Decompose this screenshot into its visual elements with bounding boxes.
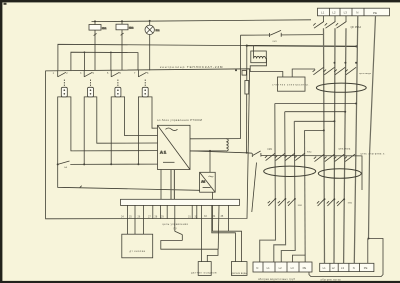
node: return bus ch4 bbox=[137, 163, 139, 165]
node: return bus ch2 bbox=[83, 163, 85, 165]
input contactor pole 4 bbox=[345, 67, 356, 75]
controller terminal strip X5 bbox=[121, 199, 240, 205]
wire: terminal 24 to button unit bbox=[127, 205, 129, 234]
breaker QF pole 1 bbox=[313, 16, 324, 28]
choke L2 bbox=[226, 139, 228, 151]
node: lamp tap bbox=[149, 20, 151, 22]
contactor KM1 linkage ellipse bbox=[264, 166, 316, 176]
relay coil KM1 bbox=[89, 21, 101, 70]
breaker QF pole 2 bbox=[325, 16, 336, 28]
labels: strip terminal numbers bbox=[121, 215, 224, 219]
svg-text:N: N bbox=[256, 266, 258, 270]
wire: KM1 feed N bbox=[275, 103, 356, 105]
wire: control line from A1 to KM coil circuit bbox=[190, 151, 252, 153]
wire: N drop into choke bbox=[253, 46, 255, 58]
svg-text:L1: L1 bbox=[321, 10, 325, 14]
heater channel 1: contact K1 bbox=[58, 70, 66, 87]
svg-text:цепь ввода: цепь ввода bbox=[359, 73, 372, 75]
svg-text:PE: PE bbox=[364, 266, 368, 270]
scan border left bbox=[0, 0, 2, 283]
heater channel 2: contact K2 bbox=[84, 70, 92, 87]
node: N bus at input N line bbox=[355, 45, 357, 47]
wire: PE corner to tray strip bbox=[367, 239, 369, 264]
input contactor pole 3 bbox=[334, 67, 345, 75]
wire: control line continuation bbox=[261, 156, 362, 191]
heater channel 3: plug connector X3 bbox=[115, 87, 121, 97]
wire: long riser to top sub-circuit bbox=[240, 35, 242, 138]
wire: terminal 29 stub bbox=[166, 205, 168, 218]
svg-text:QF 35A4: QF 35A4 bbox=[351, 25, 362, 29]
wire: meter to input contactor bbox=[292, 69, 315, 77]
wire: phase L2 riser bbox=[334, 28, 335, 263]
svg-text:N: N bbox=[353, 266, 355, 270]
svg-text:L3: L3 bbox=[344, 11, 348, 15]
wire: KM1 pole 4 drop bbox=[304, 130, 307, 262]
wire: top control bus L bbox=[92, 20, 312, 22]
node: line2 terminal 3 bbox=[84, 51, 86, 53]
contactor KM2 linkage ellipse bbox=[318, 169, 361, 179]
heater channel 1: plug connector X1 bbox=[61, 87, 67, 97]
water sensor box bbox=[231, 262, 247, 276]
wire: ch1 drop to A2 bbox=[58, 164, 200, 190]
node: heater return bus ch1 bbox=[57, 163, 59, 165]
tray heating terminal strip bbox=[320, 263, 374, 271]
contactor KM1 pole 3 blade bbox=[285, 153, 295, 160]
svg-text:A 1: A 1 bbox=[160, 149, 167, 154]
input terminal strip X0 bbox=[318, 8, 390, 16]
heater channel 2: plug connector X2 bbox=[88, 87, 94, 97]
labels: pipes strip cells bbox=[256, 266, 306, 270]
contactor KM2 pole 4 blade bbox=[345, 154, 355, 161]
contact SF on control line bbox=[252, 151, 261, 157]
wire: terminal 27 stub bbox=[152, 205, 154, 218]
svg-text:A2: A2 bbox=[201, 179, 205, 183]
wire: KM1 coil contact line to L1 bbox=[241, 34, 324, 37]
heater loop E1 bbox=[58, 97, 158, 164]
wire: terminal 30 to PU line bbox=[217, 205, 220, 249]
svg-text:датчик воды: датчик воды bbox=[232, 272, 248, 275]
wire: neutral N riser bbox=[354, 16, 358, 263]
input contactor pole 2 bbox=[324, 67, 335, 75]
wire: terminal 33 to rain sensor bbox=[201, 205, 203, 261]
svg-text:PE: PE bbox=[373, 11, 377, 15]
wire: A2 bottom to water sensor bbox=[213, 192, 242, 261]
node: line2 terminal 5 bbox=[110, 52, 112, 54]
node: KM2 coil tap bbox=[121, 20, 123, 22]
input contactor pole 1 bbox=[313, 67, 324, 75]
wire: phase L3 riser bbox=[344, 28, 346, 263]
wire: terminal 35 to water sensor line bbox=[228, 205, 230, 231]
labels: input strip cells bbox=[321, 10, 377, 14]
svg-text:ПУ: ПУ bbox=[174, 228, 178, 231]
contactor KM1 pole 4 blade bbox=[295, 153, 305, 160]
svg-text:счетчик электроэнер.: счетчик электроэнер. bbox=[272, 83, 310, 86]
wire: terminal 28 stub bbox=[159, 205, 161, 218]
labels: terminal numbers 1-8 bbox=[53, 72, 149, 75]
svg-text:цепь управления: цепь управления bbox=[163, 223, 189, 226]
wire: phase L1 riser bbox=[324, 28, 325, 263]
wire: A1 right to choke top bbox=[190, 138, 241, 140]
wire: bus line2 bbox=[71, 52, 138, 70]
breaker contact KM2 out 2 bbox=[327, 199, 335, 206]
svg-text:L1: L1 bbox=[267, 266, 270, 270]
wire: KM1 feed L1 bbox=[305, 129, 324, 131]
wire: riser into controller terminal N bbox=[246, 46, 248, 81]
heater channel 3: contact K3 bbox=[111, 70, 119, 87]
node: controller top edge mark bbox=[235, 69, 237, 71]
svg-text:контроллер ТЕПЛОСКАТ-23М: контроллер ТЕПЛОСКАТ-23М bbox=[160, 65, 223, 69]
wire: PE riser bbox=[369, 16, 376, 239]
svg-text:датчик осадков: датчик осадков bbox=[191, 272, 217, 275]
lamp HL1 bbox=[145, 21, 154, 70]
interface unit A2 bbox=[200, 172, 216, 192]
wire: KM1 feed L3 bbox=[285, 111, 346, 113]
svg-text:L2: L2 bbox=[332, 266, 335, 270]
node: N junctions bbox=[334, 62, 336, 64]
wire: choke to meter bbox=[250, 58, 283, 77]
wire: A1 output pair to terminal strip bbox=[171, 170, 174, 200]
wire: terminal 31 stub bbox=[191, 205, 193, 219]
contact KM1 aux on N feed bbox=[270, 30, 282, 37]
svg-text:КМ2: КМ2 bbox=[307, 151, 312, 153]
contactor KM1 pole 2 blade bbox=[275, 153, 285, 160]
svg-text:цепь обогрева л.: цепь обогрева л. bbox=[361, 154, 386, 156]
node: PE corner bbox=[368, 238, 370, 240]
scan border top bbox=[0, 0, 400, 2]
node: line1 / N riser junction bbox=[246, 45, 248, 47]
svg-text:L3: L3 bbox=[341, 266, 344, 270]
breaker contact KM1 out 1 bbox=[268, 199, 276, 206]
heater channel 4: plug connector X4 bbox=[142, 87, 148, 97]
heater channel 4: contact K4 bbox=[138, 70, 146, 87]
wire: KM coil return drop bbox=[252, 163, 257, 213]
choke L1 in sub box bbox=[251, 51, 266, 63]
wire: KM1 pole 3 drop bbox=[281, 121, 295, 262]
scan border bottom bbox=[0, 281, 400, 283]
svg-text:N: N bbox=[356, 11, 358, 15]
terminal square on controller top edge bbox=[242, 71, 246, 76]
contactor KM2 pole 3 blade bbox=[334, 154, 344, 161]
switch SA1 bbox=[58, 161, 70, 164]
wire: terminal 25 to button unit bbox=[134, 205, 136, 234]
svg-text:PE: PE bbox=[303, 266, 307, 270]
wire: KM1 feed L2 bbox=[294, 120, 334, 122]
breaker contact KM2 out 3 bbox=[337, 199, 345, 206]
tick on ch1 drop wire bbox=[80, 186, 82, 188]
wire: KM1 pole 1 drop bbox=[260, 104, 276, 263]
wire: terminal 26 to button unit bbox=[143, 205, 145, 234]
relay coil KM2 bbox=[116, 21, 128, 70]
svg-text:КМ1: КМ1 bbox=[298, 205, 303, 207]
wire: choke bottom to A1 bbox=[190, 150, 226, 152]
heater loop E2 bbox=[84, 97, 157, 164]
heater loop E3 bbox=[111, 97, 157, 164]
breaker contact KM1 out 3 bbox=[287, 199, 295, 206]
fuse FU1 bbox=[245, 81, 249, 95]
svg-text:L2: L2 bbox=[332, 10, 336, 14]
svg-text:L3: L3 bbox=[291, 266, 294, 270]
svg-text:цепь обогр.: цепь обогр. bbox=[339, 149, 352, 151]
contactor KM2 pole 1 blade bbox=[314, 154, 324, 161]
heater loop E4 bbox=[138, 97, 157, 164]
switch PU bbox=[175, 205, 183, 240]
svg-text:КМ1: КМ1 bbox=[268, 149, 273, 151]
svg-text:дт кнопка: дт кнопка bbox=[130, 250, 146, 253]
svg-text:КМ2: КМ2 bbox=[348, 203, 353, 205]
wire: heater return bus bbox=[70, 163, 157, 165]
svg-text:L2: L2 bbox=[279, 266, 282, 270]
svg-text:обогрев водосточных труб: обогрев водосточных труб bbox=[258, 278, 296, 281]
wire: tap down to A2 bbox=[209, 151, 211, 172]
wire: terminal 34 to water sensor bbox=[212, 205, 236, 261]
wire: terminal 32 stub bbox=[196, 205, 198, 219]
energy meter box bbox=[278, 77, 306, 91]
wire: A1 bottom left to terminal strip bbox=[160, 170, 162, 200]
breaker contact KM1 out 2 bbox=[278, 199, 286, 206]
pipes heating terminal strip bbox=[253, 262, 312, 272]
node: return bus ch3 bbox=[110, 163, 112, 165]
breaker QF pole 3 bbox=[336, 16, 347, 28]
contactor KM2 pole 2 blade bbox=[324, 154, 334, 161]
wire: KM1 pole 2 drop bbox=[274, 112, 286, 262]
rain sensor box bbox=[198, 262, 211, 276]
node: A2 tap bbox=[209, 150, 211, 152]
control unit A1 bbox=[158, 125, 191, 169]
wire: N bus bold to input N bbox=[247, 45, 357, 48]
wire: PU switch to rain sensor bbox=[161, 241, 218, 262]
controller enclosure box bbox=[46, 69, 250, 219]
input contactor linkage ellipse bbox=[316, 83, 366, 92]
button unit box bbox=[122, 234, 153, 258]
svg-text:эл.блок управления РТ300И: эл.блок управления РТ300И bbox=[157, 118, 202, 122]
labels: tray strip cells bbox=[323, 266, 368, 270]
wire: bus line1 to terminal 1 bbox=[58, 44, 247, 70]
svg-text:L1: L1 bbox=[323, 266, 326, 270]
contactor KM1 pole 1 blade bbox=[265, 153, 275, 160]
breaker contact KM2 out 1 bbox=[317, 199, 325, 206]
wire: fuse to A1 control line bbox=[246, 94, 248, 153]
wire: PE loop around bottom bbox=[309, 239, 383, 277]
node: KM1 coil tap bbox=[94, 20, 96, 22]
